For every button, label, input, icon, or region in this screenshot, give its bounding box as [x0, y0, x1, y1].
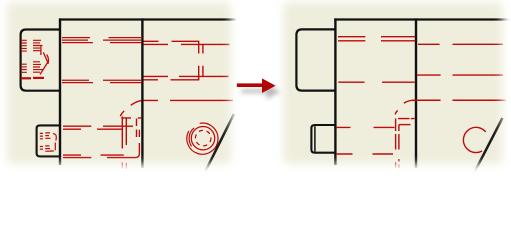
right hole step line y124.6 [399, 124, 411, 126]
left bolt1 hidden line y40 [62, 39, 142, 41]
right body left edge [334, 18, 336, 165]
left vertical hole line B x126.3 [125, 118, 127, 145]
left big head thread wide tick column2 [33, 77, 44, 79]
left hidden line y100.4 [144, 99, 234, 101]
right center line ticks [396, 159, 399, 168]
left panel cream background [0, 0, 252, 175]
right panel group [262, 0, 511, 175]
left bolt1 hidden line y38 [62, 37, 142, 39]
left body left edge [59, 18, 61, 165]
right break diagonal [473, 118, 503, 175]
left small head chevron bracket [50, 134, 56, 151]
right hole C arc [463, 127, 485, 152]
left small head thread ticks column1 [40, 133, 43, 149]
right bolt2 hidden line y154 [336, 153, 393, 155]
left hole hidden line y76.4 right [144, 75, 229, 77]
left counterbore arc dashes [120, 101, 141, 117]
left vertical hole line D x139.4 with fillet [107, 130, 139, 158]
right bolt1 hidden line y82.2 [338, 81, 414, 83]
left break diagonal [204, 114, 235, 175]
left hole circle [191, 127, 214, 150]
left hole hidden line y79.8 right [144, 79, 200, 81]
left bolt1 hidden line y82.4 [62, 82, 142, 84]
left big head runout chevron [40, 46, 49, 75]
left center line ticks [122, 163, 126, 170]
left body divider edge [141, 18, 143, 168]
right panel cream background [262, 0, 511, 175]
left bolt1 hidden line y80.3 [62, 79, 142, 81]
left thread end vertical x198.7 [198, 41, 200, 80]
left big head thread wide tick bottom [21, 77, 31, 79]
right small bolt head outline [311, 125, 336, 153]
right hole bottom line y118.6 [398, 118, 415, 120]
right body top edge [334, 18, 511, 20]
left panel group [0, 0, 252, 175]
right hidden line y100.25 [412, 99, 506, 101]
left hole hidden line y41.3 right [144, 40, 200, 42]
right vertical hole line A x395.6 [395, 119, 397, 150]
left cosmetic thread outer arc [187, 123, 218, 154]
arrow [237, 78, 276, 93]
left vertical hole line A x122.3 [121, 117, 123, 149]
left bolt1 hidden line y42.4 [62, 42, 142, 44]
left big bolt head outline [21, 30, 61, 91]
left tap drill dashed circle [195, 130, 211, 146]
left body top edge [59, 18, 236, 20]
left big head thread ticks column 1 [21, 40, 27, 72]
left hole hidden line y44.4 right [144, 43, 230, 45]
left chamfer arc SW [189, 128, 194, 146]
right body divider edge [415, 18, 417, 168]
right bolt1 hidden line y40.8 [338, 40, 415, 42]
page background [0, 0, 511, 175]
left hole bottom line y117.9 [121, 117, 142, 119]
right hole hidden line y75.1 [417, 74, 503, 76]
right big bolt head outline [296, 29, 336, 90]
right small head inner face line [314, 126, 316, 151]
left big head thread ticks column 2 [33, 40, 43, 72]
right bolt2 hidden line y127.4 [336, 126, 395, 128]
left small bolt head outline [37, 125, 61, 156]
left bolt2 hidden line y126.2 [63, 125, 133, 127]
right counterbore arc dashes [395, 100, 412, 114]
arrow shadow [241, 84, 280, 99]
left bolt2 hidden line y157.6 [63, 157, 91, 159]
left bolt2 hidden line y129.2 [63, 128, 123, 130]
left vertical hole line C x136.5 [136, 119, 138, 138]
right vertical hole line B x398.9 [398, 125, 400, 150]
left bolt2 hidden line y155.1 [63, 154, 124, 156]
left thread end vertical x202.9 [202, 44, 204, 76]
left small head thread ticks column2 [45, 133, 51, 151]
right bolt1 hidden line y36.7 [338, 36, 415, 38]
right hole hidden line y44.3 [418, 43, 503, 45]
